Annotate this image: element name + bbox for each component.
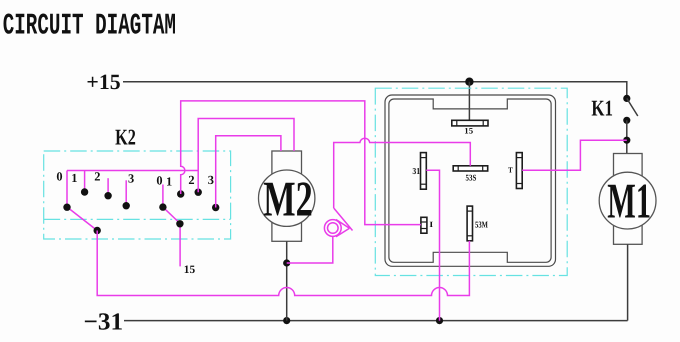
svg-text:+15: +15 bbox=[86, 70, 120, 94]
svg-text:I: I bbox=[429, 220, 433, 229]
switch K1 middle contact bbox=[623, 117, 630, 124]
relay pin I bbox=[421, 217, 427, 233]
wire B: K2 g2 t2 to M2 top bbox=[198, 119, 294, 193]
relay outline dashed box bbox=[375, 88, 567, 275]
K2 internal bus wire bbox=[67, 170, 198, 172]
svg-text:31: 31 bbox=[412, 166, 420, 176]
wire +15 to relay pin 15 bbox=[468, 82, 470, 121]
svg-text:−31: −31 bbox=[84, 309, 124, 336]
svg-text:2: 2 bbox=[188, 173, 194, 187]
svg-text:M2: M2 bbox=[263, 171, 312, 227]
relay body outer shell bbox=[385, 95, 556, 266]
node M2 bottom junction bbox=[283, 259, 290, 266]
svg-text:CIRCUIT DIAGTAM: CIRCUIT DIAGTAM bbox=[3, 8, 176, 42]
node 31-pin/-31 junction bbox=[436, 317, 443, 324]
wire M2 to -31 rail bbox=[286, 241, 288, 320]
svg-text:15: 15 bbox=[184, 264, 196, 276]
svg-text:15: 15 bbox=[464, 127, 473, 136]
K2 group2 rotor arm bbox=[163, 207, 180, 223]
svg-text:0: 0 bbox=[56, 169, 62, 183]
svg-text:2: 2 bbox=[94, 169, 100, 183]
wire sensor to M2 bottom junction bbox=[287, 236, 333, 263]
svg-text:53S: 53S bbox=[466, 172, 477, 182]
svg-text:T: T bbox=[508, 166, 513, 175]
K2 group2 contact dots bbox=[177, 190, 184, 197]
relay pin T bbox=[516, 153, 522, 189]
node K1/T junction bbox=[623, 137, 630, 144]
wire T: relay pin T to K1 junction bbox=[522, 140, 627, 170]
svg-text:0: 0 bbox=[156, 173, 162, 187]
motor M1 body bbox=[599, 154, 656, 245]
wire D: sensor to relay pin 53S (hops wire A) bbox=[334, 138, 471, 208]
switch K1 upper contact bbox=[623, 95, 630, 102]
switch K1 lever bbox=[627, 98, 638, 116]
wire D diagonal into sensor tip bbox=[334, 208, 353, 231]
switch block K2 inner dashed line bbox=[44, 218, 231, 220]
relay body inner shell with notches bbox=[389, 99, 551, 262]
K2 group1 pivot wire bbox=[66, 171, 68, 208]
-31 rail wire bbox=[124, 320, 628, 322]
K2 group1 terminal 2 stub bbox=[107, 178, 109, 196]
K2 group1 terminal 3 stub bbox=[125, 180, 127, 205]
node M2/-31 junction bbox=[283, 317, 290, 324]
switch block K2 dashed box bbox=[44, 151, 231, 239]
svg-text:M1: M1 bbox=[607, 172, 651, 228]
K2 group2 pivot stub bbox=[162, 185, 164, 208]
wire A: K2 g2 t1 to relay pin I (hops K2 bus) bbox=[181, 101, 421, 225]
K2 group2 wire to 15 stub bbox=[179, 224, 181, 267]
svg-text:1: 1 bbox=[166, 175, 172, 189]
K2 group1 rotor arm bbox=[67, 207, 97, 231]
sensor B1 (horn symbol) bbox=[324, 220, 349, 237]
svg-text:1: 1 bbox=[71, 171, 77, 185]
svg-text:3: 3 bbox=[128, 172, 134, 186]
wire F: relay pin 31 to -31 rail bbox=[426, 170, 439, 320]
node junction on +15 rail bbox=[465, 78, 473, 86]
K2 group1 terminal 1 wire bbox=[84, 171, 86, 192]
svg-text:53M: 53M bbox=[475, 220, 488, 230]
relay pin 31 bbox=[421, 153, 427, 190]
relay pin 53S bbox=[453, 166, 488, 171]
wire E: K2 g1 arm to relay pin 53M (hops M2 wire and wire F) bbox=[97, 231, 469, 296]
relay pin 15 bbox=[452, 120, 488, 126]
wire C: K2 g2 t3 to M2 top bbox=[216, 136, 281, 208]
+15 rail wire bbox=[123, 82, 627, 99]
K2 group1 contact dots bbox=[81, 188, 88, 195]
svg-text:K1: K1 bbox=[591, 95, 613, 120]
relay pin 53M bbox=[467, 206, 472, 241]
wire M1 to -31 rail bbox=[627, 244, 629, 320]
svg-text:3: 3 bbox=[208, 173, 214, 187]
wire K1 to junction bbox=[626, 120, 628, 153]
motor M2 body bbox=[259, 151, 315, 241]
svg-text:K2: K2 bbox=[115, 125, 136, 150]
